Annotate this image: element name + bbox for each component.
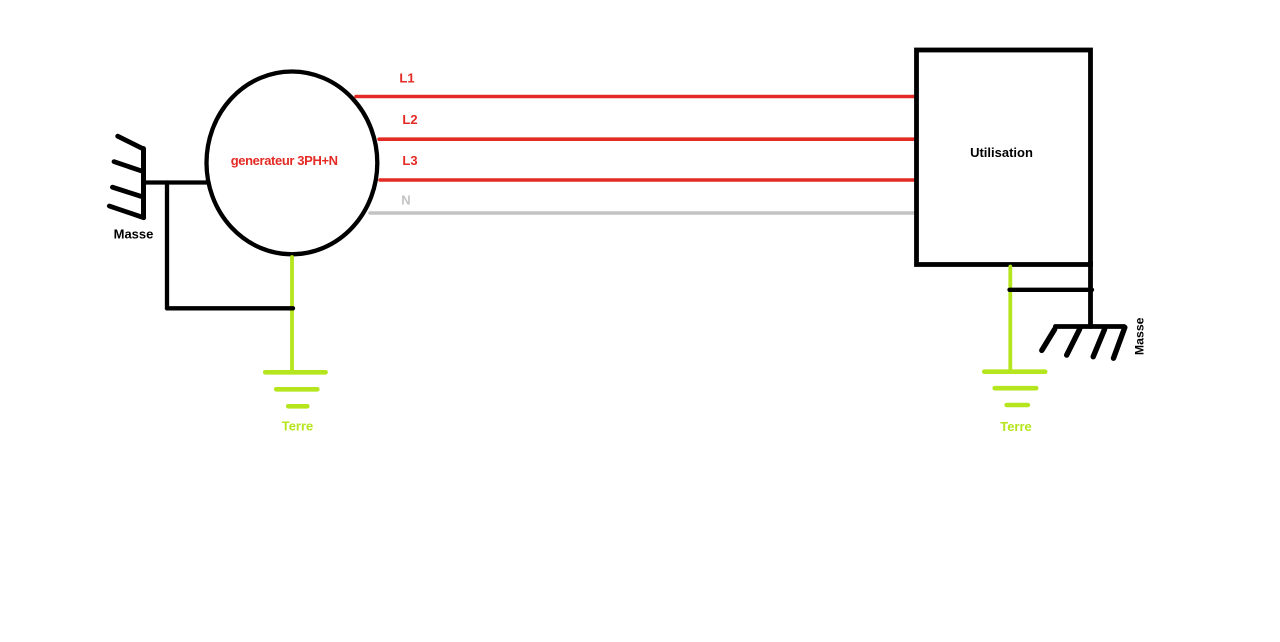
earth ground right: middle bar xyxy=(995,386,1036,391)
wire: box right edge extension down to chassis ground xyxy=(1088,262,1093,327)
chassis ground left (Masse): vertical bar xyxy=(141,149,146,218)
svg-text:L3: L3 xyxy=(402,153,417,168)
chassis ground left hatch 1 xyxy=(118,136,143,149)
wire N (neutral, grey) xyxy=(370,211,917,215)
wire: load earth conductor (green) xyxy=(1008,267,1012,372)
svg-text:Utilisation: Utilisation xyxy=(970,145,1033,160)
wire L1 (phase 1, red) xyxy=(356,95,917,99)
svg-text:L2: L2 xyxy=(402,112,417,127)
chassis ground right hatch 4 xyxy=(1114,327,1125,358)
earth ground left: bottom bar xyxy=(288,404,307,409)
svg-text:Masse: Masse xyxy=(114,227,154,242)
chassis ground right hatch 3 xyxy=(1093,329,1104,357)
wire: connector from earth conductor to box extension xyxy=(1010,288,1093,292)
generator G1 (circle) xyxy=(207,71,378,254)
svg-text:generateur 3PH+N: generateur 3PH+N xyxy=(231,153,338,168)
earth ground right: bottom bar xyxy=(1007,403,1028,408)
svg-text:Terre: Terre xyxy=(282,418,314,433)
load box U1 (Utilisation) xyxy=(917,50,1091,265)
earth ground right (Terre): top bar xyxy=(984,369,1045,374)
chassis ground left hatch 2 xyxy=(114,162,141,171)
chassis ground left hatch 3 xyxy=(112,187,142,197)
wire: vertical drop from masse wire xyxy=(165,183,169,309)
svg-text:Masse: Masse xyxy=(1133,317,1147,355)
chassis ground right (Masse): horizontal bar xyxy=(1055,324,1124,329)
wire L3 (phase 3, red) xyxy=(380,178,917,182)
wire L2 (phase 2, red) xyxy=(379,137,917,141)
svg-text:L1: L1 xyxy=(399,71,414,86)
wire: horizontal to earth conductor xyxy=(167,306,293,310)
earth ground left (Terre): top bar xyxy=(265,370,325,375)
svg-text:Terre: Terre xyxy=(1000,419,1032,434)
earth ground left: middle bar xyxy=(276,387,317,392)
wire: masse bar to generator xyxy=(144,180,208,184)
svg-text:N: N xyxy=(401,193,410,208)
chassis ground right hatch 1 xyxy=(1042,329,1055,350)
chassis ground left hatch 4 xyxy=(109,206,143,218)
wire: generator earth conductor (green) xyxy=(290,257,294,372)
chassis ground right hatch 2 xyxy=(1067,329,1080,355)
